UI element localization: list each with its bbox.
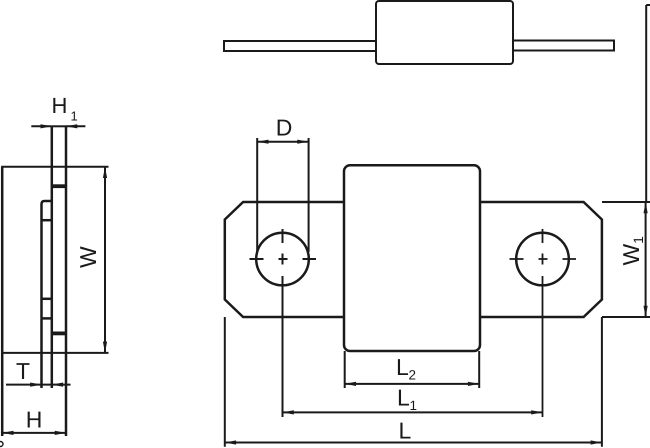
dimension D [257,138,308,252]
svg-text:H: H [26,407,43,433]
svg-text:1: 1 [410,398,418,413]
svg-text:H: H [52,93,68,118]
body left edge [1,167,4,353]
tab left line [51,126,54,388]
flange plate edge (bump) [42,201,52,318]
svg-text:L: L [399,418,412,444]
tab right line [65,126,68,436]
dimension L1 [283,410,543,414]
body bottom edge [1,352,108,354]
dimension H (left view bottom) [2,431,66,435]
dimension W1 [602,202,650,317]
projection line right [646,5,650,203]
svg-text:1: 1 [71,108,78,123]
svg-text:L: L [396,354,409,380]
plate bottom [42,317,52,320]
tab thick bar top [52,184,66,188]
body (front view) [344,165,480,351]
body top edge [1,166,108,168]
hole left centerlines [250,229,317,417]
dimension T [6,383,71,387]
lead left (top view) [224,41,376,51]
hole right [516,233,569,286]
svg-text:W: W [75,246,101,268]
tab tip cap [52,125,66,127]
hole left [256,233,309,286]
H extension left [1,353,4,436]
dimension L2 [345,351,480,388]
plate line 2 [42,219,52,222]
plate line 3 [42,298,52,301]
lead right (top view) [513,41,614,51]
dimension H1 [31,124,85,128]
stray arc bottom-left [0,442,3,447]
body (top view) [376,1,513,64]
hole right centerlines [510,229,577,417]
svg-text:T: T [16,358,30,384]
dimension L [225,317,602,447]
flange octagon [225,202,602,317]
dimension W (left view) [103,167,107,353]
T extension left [40,318,43,388]
tab thick bar bottom [52,331,66,335]
svg-text:D: D [276,115,293,141]
svg-text:2: 2 [409,368,417,383]
svg-text:L: L [397,385,410,411]
